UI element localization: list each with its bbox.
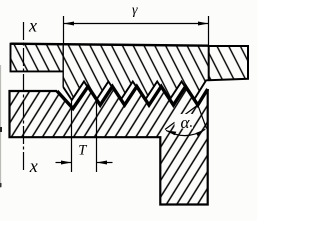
svg-text:x: x [29,156,38,176]
svg-text:T: T [78,143,87,159]
svg-text:α: α [181,113,191,132]
svg-text:x: x [28,16,37,36]
svg-text:γ: γ [132,3,138,18]
